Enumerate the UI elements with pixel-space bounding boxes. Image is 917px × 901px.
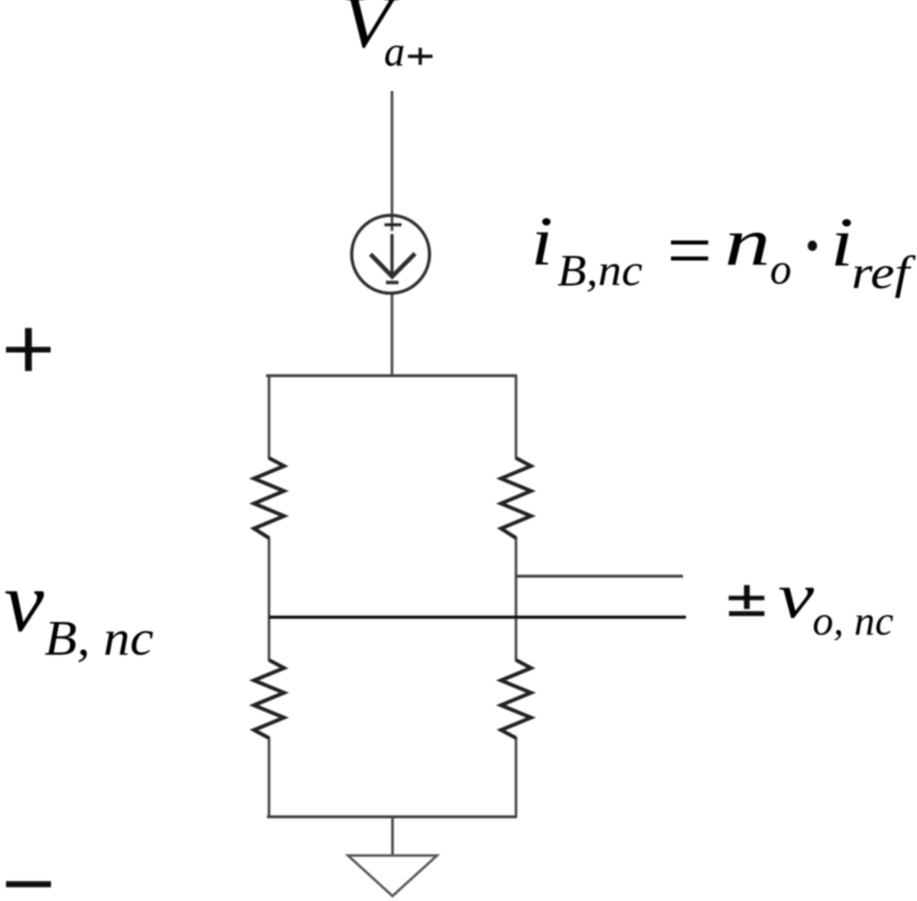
svg-text:ref: ref	[852, 247, 917, 299]
svg-text:B,nc: B,nc	[558, 246, 644, 295]
svg-text:i: i	[531, 204, 553, 281]
svg-text:n: n	[725, 204, 771, 280]
svg-text:B, nc: B, nc	[45, 609, 154, 665]
svg-text:a: a	[384, 29, 405, 75]
svg-text:v: v	[4, 556, 44, 650]
svg-text:i: i	[831, 205, 854, 282]
svg-text:o, nc: o, nc	[813, 598, 894, 644]
svg-text:o: o	[770, 247, 792, 294]
svg-text:=: =	[667, 207, 712, 295]
svg-text:v: v	[778, 561, 814, 633]
